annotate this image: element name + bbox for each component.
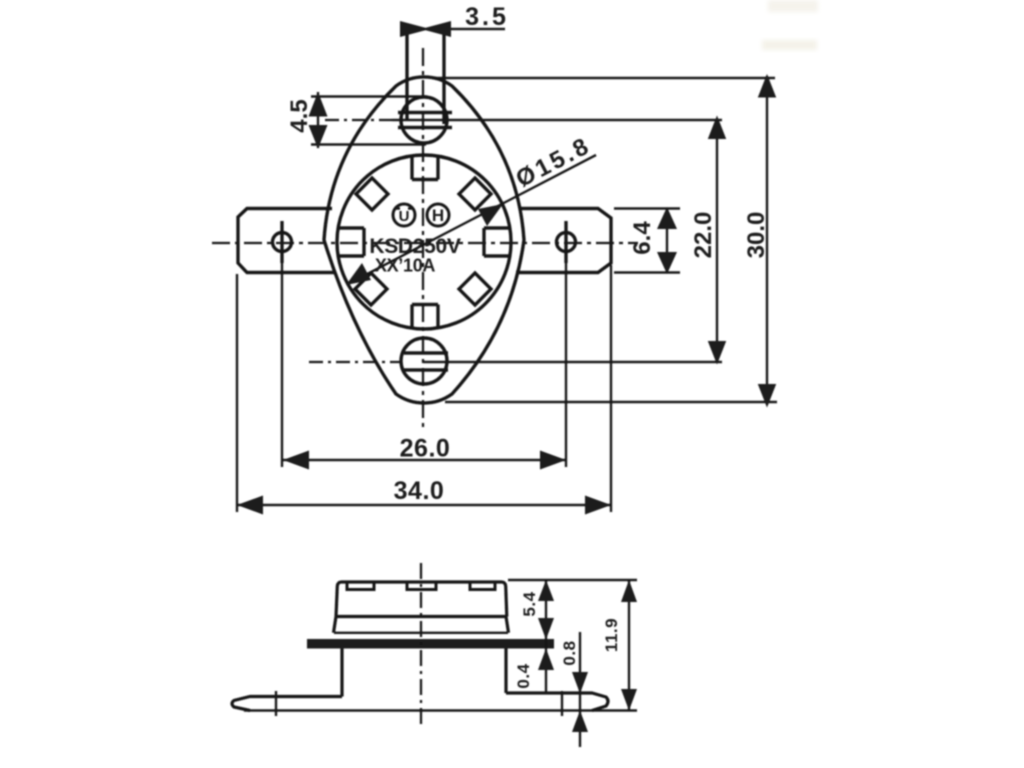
svg-text:30.0: 30.0 [743,212,770,259]
svg-text:22.0: 22.0 [690,212,717,259]
svg-text:34.0: 34.0 [394,477,445,505]
svg-text:4.5: 4.5 [286,99,313,132]
svg-text:U: U [399,208,410,225]
svg-text:6.4: 6.4 [629,221,656,255]
svg-text:0.8: 0.8 [560,640,579,665]
svg-text:H: H [432,206,444,225]
svg-text:0.4: 0.4 [514,663,533,688]
svg-text:5.4: 5.4 [520,591,539,616]
svg-text:XX’10A: XX’10A [375,256,436,276]
svg-text:26.0: 26.0 [400,435,451,463]
svg-text:3.5: 3.5 [465,3,509,31]
svg-text:11.9: 11.9 [602,618,621,652]
